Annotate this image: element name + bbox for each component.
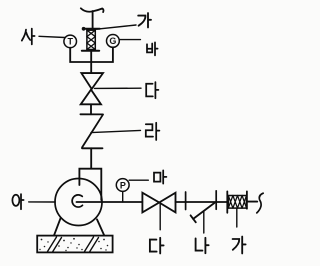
label 바 xyxy=(147,42,158,55)
flange: top flange of strainer S1 xyxy=(83,28,100,30)
wire: valve V1 to flexible joint xyxy=(90,104,92,114)
label 아 xyxy=(12,194,23,209)
wire: leader to label 라 xyxy=(91,130,141,132)
valve V2 (gate valve bowtie 다) xyxy=(142,193,175,213)
gauge G1 (pressure gauge circle) xyxy=(107,35,120,48)
flange F1 xyxy=(185,192,187,210)
pipe break symbol xyxy=(257,193,263,213)
gauge T1 (thermometer circle) xyxy=(64,35,77,48)
check valve CV1 (swing flap 나) xyxy=(191,203,215,222)
label 가 (top right) xyxy=(138,13,151,27)
vent to atmosphere symbol xyxy=(81,8,104,28)
wire: G1 to label 바 xyxy=(119,39,140,41)
flange: bottom flange of strainer S1 xyxy=(82,50,99,52)
flexible joint FJ1 (zigzag 라) xyxy=(80,114,103,148)
node A: junction dot at priming pipe top xyxy=(82,27,86,31)
strainer S1 (hatched body) xyxy=(87,30,95,49)
pump leg right xyxy=(97,219,104,235)
label 가 (bottom) xyxy=(233,237,246,254)
svg-text:P: P xyxy=(120,180,126,190)
wire: 사 label line xyxy=(39,36,65,37)
wire: meter M1 to pipe break xyxy=(247,201,257,203)
wire: U-bracket from T1 down, across, up to G1 xyxy=(70,47,113,62)
label 다 (bottom) xyxy=(150,238,164,254)
wire: leader to bottom label 다 xyxy=(159,204,161,230)
wire: discharge line from pump centre to right xyxy=(77,201,143,203)
wire: leader to label 나 xyxy=(203,211,205,233)
wire: flexible joint to pump nozzle xyxy=(90,148,92,168)
label 사 xyxy=(22,29,35,45)
wire: P1 to label 마 xyxy=(129,179,148,181)
pump casing circle xyxy=(55,179,102,226)
svg-text:T: T xyxy=(67,37,73,47)
wire: suction line from label 아 xyxy=(29,201,56,203)
meter M1 (hatched body 가) xyxy=(227,191,247,212)
svg-text:G: G xyxy=(109,36,116,46)
label 다 (middle) xyxy=(146,82,158,98)
gauge P1 (pressure gauge on discharge) xyxy=(116,179,129,202)
valve V1 (vertical globe valve 다) xyxy=(81,73,103,104)
wire: V2 to flange xyxy=(176,201,186,203)
label 나 (bottom) xyxy=(196,238,209,253)
wire: flange F1 to check valve xyxy=(186,201,217,203)
wire: main vertical line strainer to valve V1 xyxy=(90,51,92,73)
wire: leader to bottom label 가 xyxy=(236,208,238,227)
wire: leader to middle label 다 xyxy=(95,87,142,89)
pump nozzle (rectangle on pump casing) xyxy=(79,169,101,200)
label 라 xyxy=(146,123,160,140)
label 마 xyxy=(154,170,166,183)
pump leg left xyxy=(54,218,61,235)
pump impeller (inner C) xyxy=(72,195,82,207)
wire: leader to top label 가 xyxy=(97,25,137,29)
wire: flange F2 to meter M1 xyxy=(216,201,227,203)
foundation block (concrete base) xyxy=(37,236,112,253)
flange F2 xyxy=(215,191,217,210)
